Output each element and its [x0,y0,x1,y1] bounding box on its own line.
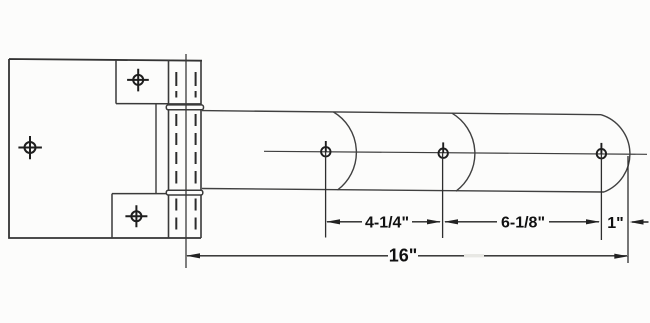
collar lower [166,190,203,195]
top mounting tab [116,60,169,104]
svg-text:6-1/8": 6-1/8" [501,215,545,232]
dimension 4-1/4 line [326,219,441,224]
strap top edge [202,111,601,115]
strap hole 3 [597,143,606,159]
strap hole 2 [439,142,448,158]
bottom tab hole: crosshair [125,205,147,227]
knuckle joint line upper [169,103,202,105]
svg-text:4-1/4": 4-1/4" [365,215,409,232]
svg-text:1": 1" [607,215,623,232]
plate right edge (notch between tabs) [155,104,157,194]
hidden pin line right [195,72,197,230]
bottom mounting tab [112,194,167,238]
section arc at hole 1 [334,112,357,190]
extension line from hole 3 [600,154,602,240]
hinge leaf plate [9,59,202,238]
extension line from strap end [627,156,629,263]
dimension 1in outside arrow [630,219,649,224]
svg-text:16": 16" [389,246,418,266]
extension line from hole 1 [325,152,327,238]
hidden pin line left [175,72,177,230]
extension line from hole 2 [442,153,444,238]
strap centerline [264,151,647,154]
faint scan smudge on 16in line [464,254,484,257]
section arc at hole 2 [452,113,475,191]
top tab hole: crosshair [127,69,149,92]
dimension 6-1/8 line [444,219,600,224]
collar upper [166,105,203,110]
strap end cap arc [601,115,630,192]
strap bottom edge [202,189,604,193]
strap hole 1 [321,141,330,157]
dimension 16 line [186,253,628,259]
barrel (knuckle) outline [169,60,202,238]
plate hole left: crosshair [18,136,42,159]
pin centerline / 16in extension line [185,54,187,268]
